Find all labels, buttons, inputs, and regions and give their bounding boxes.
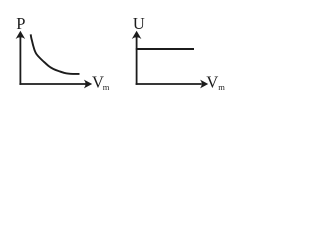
y-axis (P)	[19, 33, 21, 85]
left graph: P vs V_m	[19, 33, 85, 85]
svg-text:m: m	[218, 82, 225, 92]
right graph: U vs V_m	[136, 33, 202, 85]
x-axis (Vm)	[19, 83, 85, 85]
x-axis arrowhead (left)	[84, 80, 92, 89]
plateau line U = const	[136, 48, 194, 50]
y-axis arrowhead (right)	[132, 31, 142, 39]
svg-text:U: U	[133, 14, 145, 33]
svg-text:m: m	[103, 82, 110, 92]
svg-text:V: V	[206, 72, 218, 91]
x-axis (Vm)	[136, 83, 202, 85]
svg-text:P: P	[16, 14, 25, 33]
y-axis (U)	[136, 33, 138, 85]
x-axis arrowhead (right)	[200, 80, 208, 89]
curve P decaying	[31, 34, 80, 74]
y-axis arrowhead (left)	[16, 31, 26, 39]
